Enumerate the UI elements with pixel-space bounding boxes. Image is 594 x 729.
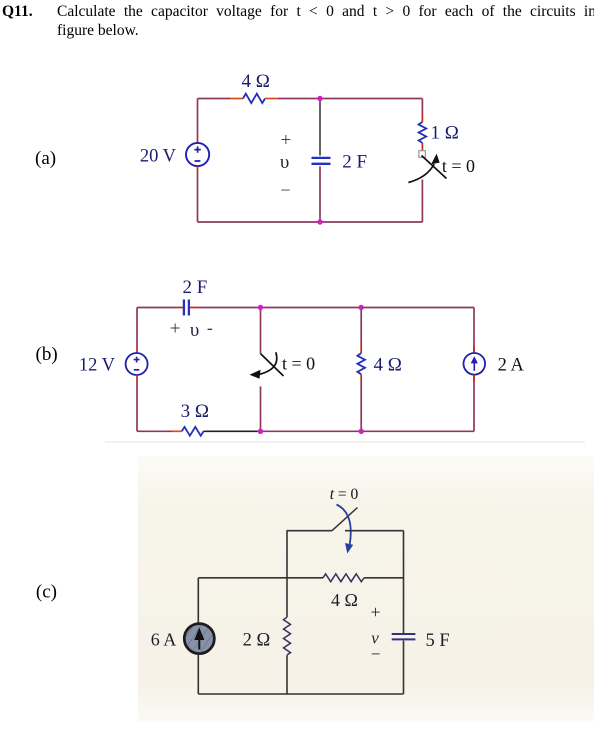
switch blade (c) (332, 508, 358, 531)
polarity labels + v - (b) (170, 318, 213, 341)
wire: (a) right wire upper (421, 99, 423, 114)
wire: (a) 1 ohm top lead (red) (421, 113, 423, 122)
svg-text:2 Ω: 2 Ω (243, 631, 271, 651)
voltage source 20 V (a) (186, 143, 209, 166)
label t = 0 (b) (282, 354, 315, 374)
resistor 1 ohm (a) (419, 122, 427, 143)
value label 2 F (b) (183, 277, 208, 298)
label (c) (36, 582, 57, 603)
wire: (a) source bottom lead (red) (197, 166, 199, 173)
resistor 4 ohm (c) (323, 574, 364, 582)
svg-text:t = 0: t = 0 (330, 486, 359, 503)
wire: (c) right branch (403, 531, 405, 633)
svg-text:(c): (c) (36, 582, 57, 603)
svg-text:+: + (281, 130, 292, 151)
node: (b) switch top junction (258, 305, 263, 310)
svg-text:t = 0: t = 0 (282, 354, 315, 374)
label t = 0 (c) (330, 486, 359, 503)
wire: (a) resistor left lead (red) (230, 98, 243, 100)
wire: (b) source bottom lead (red) (136, 375, 138, 381)
value label 4 ohm (c) (331, 590, 358, 610)
wire: (b) switch branch lower (260, 386, 262, 431)
current source 2 A (b) (464, 353, 486, 375)
wire: (c) middle horizontal left segment (198, 577, 323, 579)
svg-text:2 F: 2 F (183, 277, 208, 298)
node: (a) middle top junction (317, 96, 322, 101)
value label 2 ohm (c) (243, 631, 271, 651)
svg-text:(b): (b) (36, 344, 58, 365)
value label 2 A (498, 355, 525, 375)
voltage source 12 V (b) (126, 353, 148, 375)
value label 2 F (a) (342, 152, 367, 173)
wire: (c) top wire right of switch (345, 530, 404, 532)
switch blade (a) (422, 156, 447, 179)
svg-text:t = 0: t = 0 (442, 156, 475, 176)
node: (b) switch bottom junction (258, 429, 263, 434)
svg-text:5 F: 5 F (426, 631, 450, 651)
resistor 4 ohm (a) (243, 94, 265, 103)
resistor 2 ohm (c) (284, 617, 291, 655)
node: (a) middle bottom junction (317, 219, 322, 224)
resistor 4 ohm (b) (357, 353, 365, 374)
svg-text:+: + (170, 319, 181, 340)
svg-text:3 Ω: 3 Ω (181, 401, 209, 422)
wire: (c) left branch lower (197, 654, 199, 694)
svg-text:−: − (371, 645, 381, 664)
wire: (a) right wire lower (421, 180, 423, 223)
switch blade (b) (261, 354, 284, 376)
wire: (b) right wire upper (473, 308, 475, 354)
svg-text:υ: υ (280, 152, 289, 173)
value label 4 ohm (b) (374, 355, 402, 376)
value label 4 ohm (a) (242, 71, 270, 92)
svg-text:-: - (207, 318, 213, 338)
resistor 3 ohm (b) (182, 427, 204, 436)
capacitor 2 F (b) (184, 300, 189, 316)
switch motion arrow (c, blue) (337, 505, 354, 554)
svg-text:20 V: 20 V (140, 147, 177, 167)
wire: (b) right wire lower (473, 375, 475, 432)
wire: (b) switch branch upper (260, 308, 262, 354)
svg-text:6 A: 6 A (151, 630, 177, 650)
wire: (b) 3 ohm left lead (red) (172, 430, 182, 432)
svg-text:12 V: 12 V (79, 355, 116, 375)
wire: (c) top wire left of switch (287, 530, 333, 532)
label t = 0 (a) (442, 156, 475, 176)
wire: (b) left wire upper (136, 308, 138, 348)
wire: (a) middle branch lower (319, 166, 321, 222)
wire: (b) 4 ohm branch upper (360, 308, 362, 346)
node: (b) 4 ohm bottom junction (359, 429, 364, 434)
wire: (a) middle branch upper (black) (319, 99, 321, 156)
wire: (b) bottom black segment (204, 430, 258, 432)
value label 12 V (79, 355, 116, 375)
value label 6 A (c) (151, 630, 177, 650)
svg-text:4 Ω: 4 Ω (242, 71, 270, 92)
wire: (b) top wire right segment (197, 307, 474, 309)
wire: (a) bottom wire (198, 221, 423, 223)
wire: (c) left branch (197, 578, 199, 623)
wire: (a) source top lead (red) (197, 135, 199, 143)
wire: (c) right branch lower (403, 641, 405, 694)
wire: (a) top wire left segment (198, 98, 231, 100)
capacitor 5 F (c) (392, 634, 416, 639)
value label 3 ohm (b) (181, 401, 209, 422)
wire: (c) middle branch lower (286, 655, 288, 694)
wire: (b) cap right lead (red) (190, 307, 197, 309)
switch terminal square (a) (419, 151, 426, 158)
wire: (c) middle horizontal right segment (364, 577, 403, 579)
wire: (b) 4 ohm top lead (red) (360, 345, 362, 353)
svg-text:4 Ω: 4 Ω (374, 355, 402, 376)
wire: (b) top wire left segment (137, 307, 176, 309)
polarity labels + v - (a) (280, 130, 291, 200)
switch motion arc with arrowhead (b) (250, 352, 277, 379)
svg-text:2 A: 2 A (498, 355, 525, 375)
label (b) (36, 344, 58, 365)
wire: (b) left wire lower (136, 381, 138, 431)
svg-text:−: − (280, 180, 290, 200)
capacitor 2 F (a) (312, 158, 331, 164)
wire: (b) cap left lead (red) (176, 307, 183, 309)
switch motion arc with arrowhead (a) (408, 154, 439, 183)
wire: (b) bottom wire right segment (258, 430, 475, 432)
wire: (b) 4 ohm bottom lead (red) (360, 374, 362, 382)
svg-text:4 Ω: 4 Ω (331, 590, 358, 610)
wire: (b) bottom wire left segment (137, 430, 172, 432)
wire: (c) middle branch (286, 531, 288, 618)
value label 5 F (c) (426, 631, 450, 651)
svg-text:υ: υ (190, 320, 199, 341)
label (a) (35, 148, 56, 169)
wire: (b) source top lead (red) (136, 347, 138, 353)
svg-text:(a): (a) (35, 148, 56, 169)
wire: (c) bottom wire (198, 693, 403, 695)
polarity labels + v - (c) (371, 602, 381, 664)
current source 6 A (c) (178, 624, 220, 654)
svg-text:1 Ω: 1 Ω (431, 123, 459, 144)
node: (b) 4 ohm top junction (359, 305, 364, 310)
title (0, 2, 1, 4)
wire: (b) 4 ohm branch lower (360, 382, 362, 431)
wire: (a) left wire lower (197, 173, 199, 222)
value label 20 V (140, 147, 177, 167)
wire: (a) resistor right lead (red) (265, 98, 278, 100)
value label 1 ohm (a) (431, 123, 459, 144)
wire: (a) left wire upper (197, 99, 199, 136)
svg-text:2 F: 2 F (342, 152, 367, 173)
svg-text:+: + (371, 602, 381, 622)
wire: (a) top wire right segment (278, 98, 422, 100)
wire: (a) 1 ohm bottom lead (red) (421, 143, 423, 151)
